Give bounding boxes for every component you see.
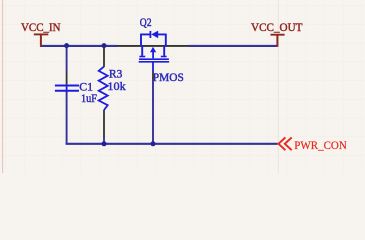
capacitor C1 pin top	[66, 71, 68, 84]
transistor Q2 drain stub	[141, 46, 143, 56]
svg-text:10k: 10k	[107, 79, 125, 93]
svg-text:PMOS: PMOS	[153, 70, 184, 84]
power port VCC_IN bar	[34, 33, 49, 35]
wire top right to VCC_OUT	[188, 45, 277, 47]
wire bottom rail	[66, 143, 278, 145]
transistor Q2 channel bar	[139, 58, 169, 60]
resistor R3 pin top	[103, 47, 105, 67]
transistor Q2 source stub	[163, 46, 165, 56]
wire black segment under Q2	[117, 45, 189, 47]
resistor R3 zigzag body	[99, 67, 108, 110]
wire gate bottom tail	[152, 82, 154, 144]
wire resistor bottom tail	[103, 138, 105, 144]
power port VCC_IN stub	[40, 35, 42, 47]
wire capacitor branch upper	[66, 46, 68, 71]
wire capacitor branch lower	[66, 92, 68, 144]
transistor Q2 body arrow	[150, 47, 156, 52]
transistor Q2 drain foot	[139, 56, 145, 58]
power port VCC_OUT stub	[276, 35, 278, 47]
svg-text:1uF: 1uF	[81, 91, 97, 105]
svg-text:Q2: Q2	[140, 15, 152, 29]
transistor Q2 gate pin black	[152, 72, 154, 82]
junction node on top wire at capacitor	[64, 43, 69, 48]
junction node on rail at resistor	[102, 141, 107, 146]
port PWR_CON chevron inner	[285, 137, 292, 150]
junction node on rail at gate	[151, 141, 156, 146]
transistor Q2 body-diode loop	[141, 34, 166, 46]
transistor Q2 gate bar	[139, 61, 169, 63]
resistor R3 pin bottom	[103, 110, 105, 138]
port PWR_CON chevron outer	[279, 137, 286, 150]
svg-text:VCC_OUT: VCC_OUT	[251, 20, 303, 34]
sheet border line	[2, 0, 4, 173]
transistor Q2 body-diode triangle	[151, 31, 158, 39]
sheet zone line	[277, 0, 279, 173]
svg-text:VCC_IN: VCC_IN	[21, 20, 61, 34]
transistor Q2 gate lead blue	[152, 63, 154, 73]
transistor Q2 body-diode cathode bar	[149, 31, 151, 38]
power port VCC_OUT bar	[271, 34, 285, 36]
transistor Q2 body arrow stem	[152, 52, 154, 58]
junction node on top wire at resistor	[102, 43, 107, 48]
wire top left VCC_IN to junctions	[40, 45, 117, 47]
svg-text:PWR_CON: PWR_CON	[294, 138, 347, 152]
capacitor C1 plates	[55, 84, 79, 92]
transistor Q2 source foot	[161, 56, 167, 58]
